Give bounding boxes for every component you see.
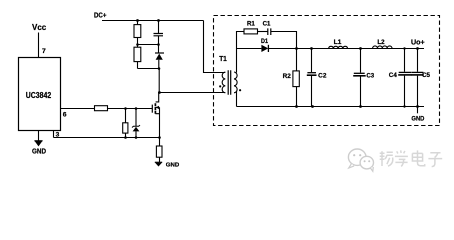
- node C2 top junction: [310, 47, 313, 50]
- wire Vcc to pin7: [38, 33, 40, 58]
- node clamp mid-A: [136, 43, 139, 46]
- wire D1 to output rail: [268, 48, 424, 50]
- svg-text:Uo+: Uo+: [411, 37, 425, 46]
- svg-text:C1: C1: [263, 21, 271, 28]
- svg-text:C4: C4: [389, 72, 397, 79]
- wire pin6 gate drive: [61, 108, 95, 110]
- resistor R1: [244, 29, 258, 34]
- capacitor C2: [311, 49, 313, 107]
- node C4 bottom junction: [403, 105, 405, 107]
- svg-text:GND: GND: [166, 163, 179, 169]
- wire clamp bottom link: [138, 68, 160, 70]
- node T1 primary polarity dot: [219, 85, 221, 87]
- resistor R-pulldown: [125, 109, 127, 138]
- wire clamp to drain node: [158, 69, 160, 93]
- node C5 top junction: [416, 47, 419, 50]
- capacitor C1: [268, 28, 271, 35]
- transformer T1 primary winding: [222, 72, 225, 93]
- node drain junction: [158, 91, 161, 94]
- wire secondary top: [236, 49, 238, 73]
- node source junction: [158, 136, 161, 139]
- wire secondary bottom: [236, 91, 238, 107]
- svg-text:C2: C2: [318, 73, 327, 80]
- svg-text:T1: T1: [219, 56, 227, 63]
- svg-text:L1: L1: [334, 39, 342, 46]
- capacitor C4: [404, 49, 406, 107]
- wire DC+ rail: [102, 20, 204, 22]
- wire output ground stub: [417, 107, 419, 114]
- transformer T1 secondary winding: [234, 72, 237, 93]
- svg-text:DC+: DC+: [94, 11, 107, 20]
- node C2 bottom junction: [311, 105, 314, 108]
- svg-text:R1: R1: [247, 21, 255, 28]
- svg-text:R2: R2: [283, 73, 292, 80]
- capacitor C5: [417, 49, 419, 107]
- resistor R-gate: [95, 106, 108, 111]
- ground (sense): [155, 161, 162, 163]
- wire snubber left: [237, 32, 245, 49]
- svg-text:6: 6: [63, 111, 67, 118]
- resistor R-clamp-b: [137, 45, 139, 69]
- ground (U1): [34, 140, 42, 142]
- capacitor C3: [360, 49, 362, 107]
- svg-text:L2: L2: [377, 39, 385, 46]
- svg-text:GND: GND: [32, 146, 46, 155]
- capacitor C-clamp: [158, 21, 160, 45]
- wire U1 to ground: [38, 131, 40, 142]
- svg-text:C5: C5: [422, 72, 430, 79]
- svg-text:UC3842: UC3842: [26, 91, 52, 100]
- transformer T1 core: [228, 70, 231, 94]
- svg-text:D1: D1: [261, 38, 268, 45]
- node gate-zener junction: [135, 107, 138, 110]
- resistor R-clamp-a: [137, 21, 139, 45]
- wire R1 to C1: [258, 31, 268, 33]
- wire clamp mid link: [138, 44, 159, 46]
- inductor L2: [373, 46, 392, 49]
- node C5 bottom junction: [416, 105, 419, 108]
- watermark logo: [348, 149, 373, 171]
- wire pin3 stub: [53, 131, 55, 138]
- wire gate: [108, 108, 153, 110]
- output filter dashed box: [214, 16, 440, 126]
- wire snubber right: [271, 32, 297, 49]
- resistor R2: [296, 49, 298, 107]
- node T1 secondary polarity dot: [239, 89, 241, 91]
- inductor L1: [329, 46, 348, 48]
- node rail-C junction: [157, 19, 160, 22]
- node pulldown-bottom: [124, 136, 127, 139]
- wire output bottom rail: [237, 106, 425, 108]
- node R2 bottom junction: [295, 105, 298, 108]
- diode D1: [261, 45, 268, 52]
- node clamp mid-B: [157, 43, 160, 46]
- node snubber-R2 junction: [295, 47, 298, 50]
- wire pin3 to source: [54, 137, 160, 139]
- node clamp bottom-B: [158, 67, 161, 70]
- resistor R-sense: [159, 138, 161, 163]
- wire drain to primary: [159, 92, 225, 94]
- node C3 top junction: [359, 47, 362, 50]
- node C4 top junction: [403, 47, 405, 49]
- diode D-clamp: [158, 45, 160, 69]
- transistor Q1 MOSFET: [156, 93, 159, 102]
- svg-text:Vcc: Vcc: [32, 23, 47, 32]
- op-amp U1 UC3842 box: [19, 58, 61, 131]
- watermark text: [380, 150, 442, 166]
- wire rail drop to primary: [204, 21, 226, 73]
- node gate-R junction: [124, 107, 127, 110]
- node rail-R junction: [136, 19, 139, 22]
- node zener-bottom: [135, 136, 138, 139]
- wire secondary to D1: [237, 48, 262, 50]
- svg-text:C3: C3: [366, 72, 374, 79]
- zener diode ZD1: [135, 109, 137, 138]
- node C3 bottom junction: [359, 105, 362, 108]
- svg-text:7: 7: [42, 48, 46, 55]
- svg-text:GND: GND: [411, 115, 424, 122]
